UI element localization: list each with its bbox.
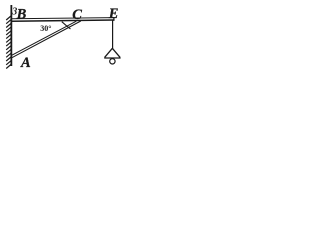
- weight bell: [104, 48, 120, 58]
- svg-text:E: E: [108, 6, 119, 22]
- wall hatching: [6, 16, 11, 69]
- strut AC lower line: [12, 21, 81, 58]
- beam BE bottom line: [12, 20, 115, 21]
- weight ring: [110, 59, 115, 64]
- beam BE top line: [12, 18, 115, 19]
- beam end cap: [113, 17, 115, 21]
- string from E: [112, 20, 114, 49]
- angle arc at C: [62, 22, 71, 29]
- wall vertical line: [10, 5, 12, 66]
- svg-text:B: B: [16, 7, 27, 23]
- strut AC upper line: [12, 21, 76, 55]
- svg-text:30°: 30°: [40, 24, 51, 33]
- svg-text:C: C: [72, 7, 82, 23]
- svg-text:A: A: [20, 55, 31, 71]
